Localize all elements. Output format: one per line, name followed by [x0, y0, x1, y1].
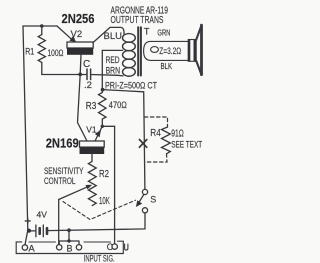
svg-text:A: A: [28, 244, 35, 255]
svg-text:Z=3.2Ω: Z=3.2Ω: [159, 46, 181, 56]
node battery left rail: [27, 229, 31, 233]
transformer T primary loop 1: [122, 34, 135, 43]
node top rail / R1 junction: [40, 24, 44, 28]
svg-text:.2: .2: [84, 80, 92, 91]
terminal strip top edge segments: [29, 241, 111, 243]
secondary stadium outline: [144, 41, 189, 60]
svg-text:C: C: [107, 242, 114, 252]
svg-text:PRI-Z=500Ω CT: PRI-Z=500Ω CT: [105, 81, 157, 91]
speaker LS cone: [196, 26, 201, 74]
svg-text:V1: V1: [86, 125, 97, 135]
svg-text:2N169: 2N169: [46, 136, 79, 151]
wire R1 bottom to base node: [42, 74, 86, 76]
wire V2 base lead down: [78, 55, 88, 141]
svg-text:470Ω: 470Ω: [109, 100, 127, 111]
wire wiper to terminal B: [58, 200, 60, 245]
dashed linkage pot to switch: [63, 200, 136, 219]
svg-text:4V: 4V: [37, 210, 48, 220]
wire RED center tap: [102, 50, 122, 89]
svg-text:GRN: GRN: [157, 29, 170, 38]
terminal C: [112, 244, 117, 249]
svg-text:100Ω: 100Ω: [48, 48, 64, 58]
transistor V2 base bar: [67, 42, 93, 48]
wire switch to battery line: [47, 213, 145, 231]
svg-text:BRN: BRN: [106, 65, 121, 76]
wire top rail: [23, 25, 57, 27]
svg-text:BLU: BLU: [104, 31, 123, 42]
svg-text:SENSITIVITY: SENSITIVITY: [44, 166, 84, 176]
node B tee: [67, 239, 70, 242]
wire R3 junction to switch: [103, 90, 145, 190]
dashed R4 branch top: [144, 117, 167, 127]
svg-text:RED: RED: [106, 55, 120, 66]
transformer T primary loop 2: [122, 42, 135, 51]
svg-text:OUTPUT TRANS: OUTPUT TRANS: [111, 15, 164, 26]
battery B1 plates: [35, 225, 37, 237]
svg-text:V2: V2: [71, 29, 83, 40]
wire V1 collector to C terminal: [102, 126, 114, 244]
transformer T primary loop 3: [122, 51, 135, 60]
secondary oval: [151, 47, 159, 53]
svg-text:R3: R3: [86, 101, 97, 112]
svg-text:B: B: [67, 243, 73, 253]
wire V1 base lead: [91, 154, 93, 162]
svg-text:S: S: [150, 195, 156, 205]
jack u glyph: [125, 244, 128, 250]
wire left rail: [23, 26, 28, 230]
svg-text:BLK: BLK: [161, 62, 173, 71]
transistor V1 base bar: [80, 141, 105, 147]
node V1 collector junction: [101, 125, 104, 128]
transistor V2 emitter line: [57, 26, 73, 40]
terminal B right: [76, 245, 81, 250]
svg-text:91Ω: 91Ω: [171, 128, 184, 139]
X cut mark: [139, 140, 146, 148]
svg-text:10K: 10K: [99, 196, 110, 207]
resistor R4: [162, 127, 171, 154]
node R3 top junction: [101, 88, 105, 92]
resistor R1: [38, 26, 45, 75]
svg-text:CONTROL: CONTROL: [44, 176, 76, 186]
transformer T primary loop 5: [122, 68, 135, 77]
speaker LS frame: [188, 40, 196, 62]
transistor V1 arrowhead: [95, 130, 101, 137]
terminal strip outline: [16, 241, 123, 253]
svg-text:INPUT SIG.: INPUT SIG.: [84, 253, 115, 263]
terminal B left: [57, 245, 62, 250]
wire left rail to terminal A: [25, 230, 28, 245]
switch S lever: [139, 194, 144, 203]
svg-text:SEE TEXT: SEE TEXT: [171, 140, 202, 150]
switch S bottom contact: [142, 208, 147, 213]
resistor R3: [99, 90, 107, 127]
wire to B terminals: [59, 230, 79, 244]
transformer T primary loop 4: [122, 59, 135, 68]
wire C to transformer BRN lead: [91, 75, 123, 76]
potentiometer R2: [88, 162, 96, 206]
svg-text:R1: R1: [25, 46, 34, 56]
transistor V2 collector line to BLU: [93, 27, 124, 42]
svg-text:R2: R2: [99, 169, 109, 180]
switch S top contact: [142, 189, 147, 194]
terminal A: [22, 245, 27, 250]
node battery line to B terminal: [67, 228, 71, 232]
dashed R4 branch bottom: [145, 154, 167, 162]
transistor V1 right lead: [95, 126, 102, 141]
transistor V2 emitter arrowhead: [69, 36, 76, 42]
svg-text:C: C: [83, 59, 90, 70]
svg-text:R4: R4: [150, 128, 161, 139]
capacitor C plates: [86, 69, 88, 80]
svg-text:T: T: [144, 27, 150, 38]
transformer T core bars: [137, 27, 139, 75]
node V2 base junction: [78, 73, 82, 77]
label +: [25, 218, 31, 224]
potentiometer R2 wiper arm: [59, 187, 88, 200]
svg-text:2N256: 2N256: [62, 11, 95, 26]
wire battery to left rail: [29, 230, 36, 232]
